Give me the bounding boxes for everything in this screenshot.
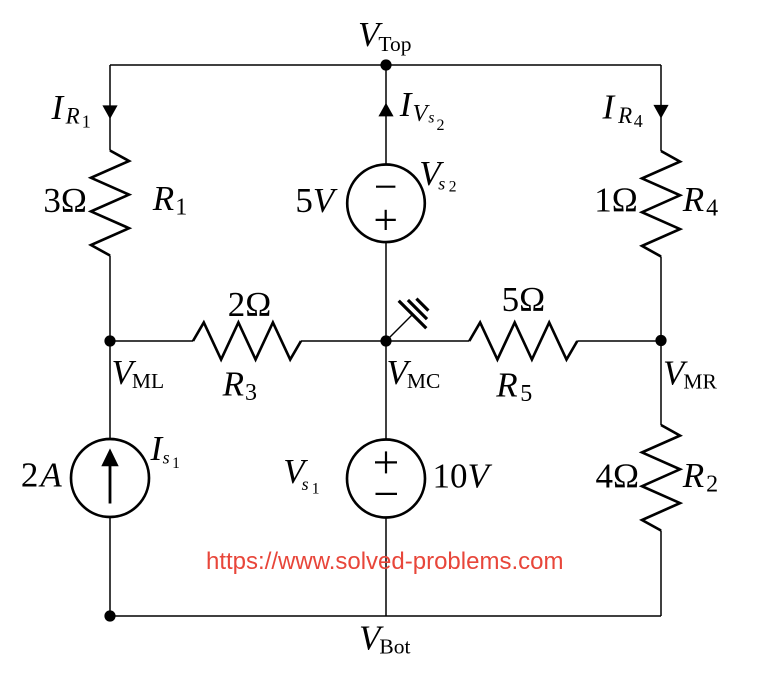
voltage source Vs1 plus sign: [375, 451, 397, 473]
wire left column (VML to Is1): [109, 341, 111, 439]
wire right column lower (R2 to bottom): [660, 531, 662, 617]
node VTop (dot): [380, 59, 391, 70]
svg-text:R3: R3: [222, 364, 257, 406]
wire right column upper (VTop to R4): [660, 65, 662, 151]
wire right column (R4 to VMR): [660, 257, 662, 342]
wire middle row (R5 to VMR): [577, 340, 661, 342]
svg-text:IR1: IR1: [51, 88, 91, 131]
svg-text:VBot: VBot: [359, 619, 410, 659]
wire bottom rail: [110, 615, 661, 617]
svg-text:VML: VML: [112, 353, 165, 393]
voltage source Vs2 minus sign: [376, 186, 395, 188]
current arrow I_R4 (down): [653, 105, 668, 119]
wire middle row (VML to R3): [110, 340, 193, 342]
svg-text:VTop: VTop: [358, 15, 412, 56]
svg-text:VMR: VMR: [663, 354, 718, 394]
wire middle row (VMC to R5): [386, 340, 469, 342]
node VMC (dot): [380, 335, 391, 346]
svg-text:10V: 10V: [433, 456, 493, 495]
ground (chassis, rotated 45deg at VMC): [386, 299, 428, 341]
wire left column (R1 to VML): [109, 256, 111, 342]
svg-text:5V: 5V: [295, 181, 338, 220]
svg-text:5Ω: 5Ω: [502, 280, 546, 319]
svg-text:R2: R2: [682, 456, 718, 498]
node VML (dot): [104, 335, 115, 346]
svg-text:IR4: IR4: [602, 87, 643, 131]
resistor R3: [193, 323, 301, 360]
wire middle column upper (VTop to Vs2): [385, 65, 387, 165]
wire right column (VMR to R2): [660, 341, 662, 425]
wire left column lower (Is1 to bottom): [109, 517, 111, 616]
current source Is1 arrow: [101, 448, 118, 503]
svg-text:3Ω: 3Ω: [43, 181, 87, 220]
resistor R1: [91, 151, 129, 256]
wire middle column (Vs2 to VMC): [385, 242, 387, 341]
resistor R2: [642, 425, 680, 531]
resistor R5: [469, 323, 577, 360]
wire left column upper (VTop to R1): [109, 65, 111, 151]
svg-text:Vs2: Vs2: [419, 154, 456, 196]
current arrow I_Vs2 (up): [378, 103, 393, 117]
svg-text:2Ω: 2Ω: [228, 285, 272, 324]
svg-text:4Ω: 4Ω: [596, 457, 640, 496]
svg-text:Is1: Is1: [150, 429, 180, 472]
wire middle row (R3 to VMC): [301, 340, 386, 342]
current source Is1 (circle): [71, 439, 149, 517]
svg-text:1Ω: 1Ω: [594, 181, 638, 220]
svg-text:VMC: VMC: [387, 353, 441, 393]
resistor R4: [642, 151, 680, 257]
svg-text:https://www.solved-problems.co: https://www.solved-problems.com: [206, 548, 563, 575]
voltage source Vs1 minus sign: [376, 493, 398, 495]
current arrow I_R1 (down): [102, 105, 117, 119]
svg-text:Vs1: Vs1: [283, 452, 319, 497]
svg-text:2A: 2A: [21, 456, 63, 495]
svg-text:IVs2: IVs2: [399, 85, 445, 134]
voltage source Vs2 plus sign: [376, 210, 396, 230]
voltage source Vs2 (circle): [347, 165, 425, 243]
wire middle column (VMC to Vs1): [385, 341, 387, 440]
wire top rail: [110, 64, 661, 66]
wire middle column lower (Vs1 to bottom): [385, 518, 387, 617]
svg-text:R4: R4: [682, 180, 718, 222]
svg-text:R1: R1: [152, 179, 187, 221]
node bottom-left (dot): [104, 610, 115, 621]
node VMR (dot): [655, 335, 666, 346]
voltage source Vs1 (circle): [347, 440, 425, 518]
svg-text:R5: R5: [495, 366, 532, 408]
